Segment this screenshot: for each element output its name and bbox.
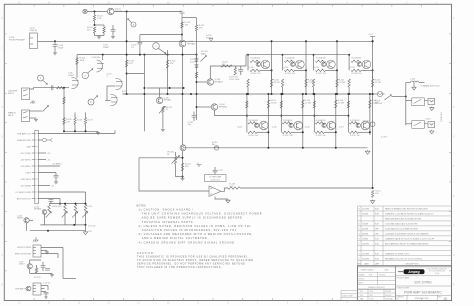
variable-resistor arrow VR-100 xyxy=(172,156,180,164)
wire xyxy=(139,44,141,55)
LED arrow D-112 xyxy=(72,212,78,218)
node reference D xyxy=(88,99,94,105)
svg-text:ST. LOUIS, MISSOURI: ST. LOUIS, MISSOURI xyxy=(429,271,445,273)
node junction xyxy=(280,93,282,95)
chassis ground jack J-102 xyxy=(30,100,35,104)
wire lower base bus xyxy=(245,115,348,117)
svg-text:TOUCHING INTERNAL PARTS.: TOUCHING INTERNAL PARTS. xyxy=(142,221,195,224)
node junction xyxy=(305,69,307,71)
wire base drop Q-156 xyxy=(313,94,315,123)
node junction xyxy=(369,93,371,95)
svg-text:TO K-100: TO K-100 xyxy=(88,225,95,227)
resistor R-129 xyxy=(234,68,236,76)
wire bias servo emitter xyxy=(182,151,184,177)
node junction xyxy=(335,131,337,133)
jack J-106 effects xyxy=(33,245,41,257)
svg-text:J: J xyxy=(1,48,2,50)
wire FX sleeve xyxy=(41,250,47,252)
capacitor C-117 xyxy=(213,170,218,172)
wire xyxy=(260,69,272,71)
company address text xyxy=(427,268,449,275)
resistor R-103 xyxy=(93,27,95,33)
transistor Q-152 xyxy=(327,60,336,69)
wire jack J-103 sleeve xyxy=(30,117,37,119)
wire xyxy=(63,278,76,280)
transistor Q-151 xyxy=(296,60,305,69)
wire output column Q-156 xyxy=(335,94,337,148)
wire DC shutdown xyxy=(38,191,85,193)
wire output column Q-150 xyxy=(271,41,273,94)
pin ANTI DISTORT of J-100 xyxy=(32,198,35,200)
title block annex table xyxy=(341,291,358,301)
svg-text:MPSA06: MPSA06 xyxy=(34,208,41,211)
svg-text:+15: +15 xyxy=(196,163,199,165)
node reference B xyxy=(131,22,136,27)
svg-text:R-152C 100: R-152C 100 xyxy=(316,73,326,75)
node junction xyxy=(246,93,248,95)
node junction xyxy=(280,115,282,117)
resistor R-143 xyxy=(181,163,183,171)
svg-text:PWR AMP IN: PWR AMP IN xyxy=(15,288,26,291)
svg-text:-50V (GRN): -50V (GRN) xyxy=(20,185,31,187)
svg-text:NOTES: NOTES xyxy=(137,205,147,207)
wire base drop Q-150 xyxy=(247,55,249,71)
wire Q-110 collector xyxy=(159,88,161,97)
transistor Q-151D xyxy=(291,62,295,66)
svg-text:4750-190-01F: 4750-190-01F xyxy=(415,298,429,300)
pin LIMIT of J-100 xyxy=(32,172,35,174)
svg-text:R-137 1K: R-137 1K xyxy=(34,277,42,279)
node junction xyxy=(335,147,337,149)
node junction xyxy=(302,93,304,95)
svg-text:Q-107: Q-107 xyxy=(19,262,24,264)
wire xyxy=(54,46,56,51)
wire output column Q-154 xyxy=(267,94,269,148)
node junction xyxy=(196,54,198,56)
svg-text:SERVICE PERSONNEL. DO NOT PE: SERVICE PERSONNEL. DO NOT PERFORM ANY SE… xyxy=(137,262,245,265)
svg-text:REV: REV xyxy=(438,296,441,298)
pin -50V (GRN) of J-100 xyxy=(32,185,35,187)
wire Q-101 collector run xyxy=(114,11,182,13)
wire xyxy=(85,225,87,231)
svg-text:R-136 100K: R-136 100K xyxy=(53,206,63,208)
ground jack J-103 xyxy=(34,118,38,121)
svg-text:ADD DAMPING CIRCUIT TO SPEAKON: ADD DAMPING CIRCUIT TO SPEAKON NETWORK xyxy=(385,242,429,245)
node junction xyxy=(169,87,171,89)
capacitor C-121 xyxy=(41,266,46,268)
node reference E xyxy=(38,75,44,81)
arrow from node A xyxy=(88,69,93,73)
wire output rail xyxy=(372,41,374,188)
svg-text:C-117: C-117 xyxy=(218,170,224,172)
svg-text:Q-154: Q-154 xyxy=(237,127,242,129)
wire vertical rail x126 xyxy=(126,12,128,95)
arrow from node E xyxy=(43,81,47,85)
capacitor C-114 xyxy=(192,116,197,118)
pin GND (BLK) of J-100 xyxy=(32,178,35,180)
transistor Q-152D xyxy=(322,62,326,66)
transistor Q-156 xyxy=(327,121,336,130)
transistor Q-107 xyxy=(27,264,32,269)
resistor R-153D xyxy=(348,79,350,87)
node junction xyxy=(247,54,249,56)
node junction xyxy=(313,115,315,117)
svg-text:1: 1 xyxy=(359,253,360,255)
svg-text:2N3904: 2N3904 xyxy=(17,218,23,220)
svg-text:7: 7 xyxy=(359,214,360,216)
node junction xyxy=(182,54,184,56)
wire xyxy=(55,177,57,181)
wire xyxy=(41,288,45,290)
wire xyxy=(94,33,96,36)
wire base drop Q-152 xyxy=(313,55,315,71)
svg-text:R-109: R-109 xyxy=(88,120,93,122)
relay contact box K-102A xyxy=(412,98,425,106)
node junction xyxy=(182,176,184,178)
node junction xyxy=(271,40,273,42)
svg-text:11/07/95: 11/07/95 xyxy=(362,243,369,245)
svg-text:R-153A 330: R-153A 330 xyxy=(352,57,362,60)
output jack J-105 speakon xyxy=(424,122,434,128)
svg-text:11/25/96: 11/25/96 xyxy=(385,291,391,293)
transistor Q-155D xyxy=(289,123,293,127)
node junction xyxy=(372,40,374,42)
resistor VR-102 xyxy=(162,107,164,113)
wire -50 pin xyxy=(38,185,50,187)
wire rail x182 upper xyxy=(181,18,183,40)
wire bias spreader top xyxy=(147,87,184,89)
node reference C xyxy=(153,43,160,50)
resistor R-150C xyxy=(250,69,260,71)
wire output mid bus HB2 xyxy=(123,93,373,95)
svg-text:A: A xyxy=(84,74,86,77)
wire xyxy=(234,66,236,68)
wire xyxy=(372,70,374,79)
wire vertical x144 xyxy=(143,55,145,132)
node junction xyxy=(182,93,184,95)
wire xyxy=(112,31,114,35)
svg-text:-15V (WHT): -15V (WHT) xyxy=(20,159,31,161)
wire base drop Q-155 xyxy=(280,94,282,123)
wire xyxy=(45,294,47,296)
resistor R-116 xyxy=(166,60,168,68)
wire V2A grid xyxy=(107,85,116,87)
node input xyxy=(54,40,56,42)
ground bias network xyxy=(181,177,185,180)
svg-text:INPUT: INPUT xyxy=(8,93,15,95)
node junction xyxy=(64,203,66,205)
svg-text:1) CAUTION: SHOCK HAZARD !: 1) CAUTION: SHOCK HAZARD ! xyxy=(139,209,194,212)
wire xyxy=(247,87,249,94)
node junction xyxy=(305,93,307,95)
node junction xyxy=(372,187,374,189)
wire main top rail HB6 xyxy=(38,40,373,42)
svg-text:D: D xyxy=(90,101,92,104)
node junction xyxy=(369,131,371,133)
wire xyxy=(336,70,338,79)
node junction xyxy=(143,54,145,56)
company logo Ampeg xyxy=(404,269,425,274)
svg-text:.22 5W: .22 5W xyxy=(305,102,311,104)
svg-text:10/25/94: 10/25/94 xyxy=(385,299,391,301)
ground cathode network xyxy=(96,131,100,134)
wire Q-106 emitter xyxy=(26,223,28,231)
wire grid leak drop xyxy=(63,88,65,132)
svg-text:V-100 WAS 12AX7, ADD K-100 NOT: V-100 WAS 12AX7, ADD K-100 NOTES xyxy=(385,223,418,226)
node junction xyxy=(246,115,248,117)
node junction xyxy=(336,69,338,71)
svg-text:JACK: JACK xyxy=(8,114,14,117)
ground bias divider xyxy=(97,36,101,39)
svg-text:3: 3 xyxy=(359,238,360,240)
svg-text:10/25/94: 10/25/94 xyxy=(379,274,385,276)
svg-text:C-106 220p: C-106 220p xyxy=(91,57,100,59)
node junction xyxy=(348,54,350,56)
wire base drop Q-153 xyxy=(348,55,350,71)
ground jack J-105 xyxy=(430,130,434,134)
wire xyxy=(324,131,336,133)
svg-text:2N5457: 2N5457 xyxy=(19,263,25,265)
fuse F-100 xyxy=(214,146,219,151)
svg-text:R-152A 330: R-152A 330 xyxy=(316,57,326,60)
capacitor C-119 xyxy=(54,175,59,177)
svg-text:SVT-3 PRO: SVT-3 PRO xyxy=(414,281,432,285)
svg-text:J: J xyxy=(453,48,454,50)
svg-text:RELEASED SVT-3 W 3 OF 157 (TO: RELEASED SVT-3 W 3 OF 157 (TO W PRO) xyxy=(385,257,422,260)
wire pre amp out xyxy=(38,133,115,135)
wire xyxy=(208,190,210,192)
svg-text:P100-2: P100-2 xyxy=(426,118,431,120)
wire +50 pin xyxy=(38,165,60,167)
svg-text:470pF: 470pF xyxy=(58,47,65,49)
node junction xyxy=(336,93,338,95)
wire xyxy=(282,87,284,94)
resistor R-157A base xyxy=(349,122,358,124)
svg-text:Q-155: Q-155 xyxy=(272,127,277,129)
pin PRE AMP OUT of J-100 xyxy=(32,133,35,135)
wire xyxy=(413,82,415,86)
chassis ground symbol FX xyxy=(33,237,39,242)
svg-text:CHASSIS GND: CHASSIS GND xyxy=(17,139,31,142)
resistor R-102 xyxy=(93,15,95,21)
svg-text:R-146 WAS 20K, R-143 WAS 470 O: R-146 WAS 20K, R-143 WAS 470 OHM xyxy=(385,228,418,231)
wire xyxy=(348,87,350,94)
svg-text:2 OF 2: 2 OF 2 xyxy=(381,137,388,139)
resistor R-155B emitter xyxy=(302,100,304,108)
svg-text:12AX7: 12AX7 xyxy=(68,74,75,77)
wire xyxy=(74,125,76,132)
svg-text:0: 0 xyxy=(359,258,360,260)
wire servo input run xyxy=(139,158,208,191)
resistor R-137 xyxy=(35,268,37,273)
resistor R-156B emitter xyxy=(335,100,337,108)
resistor VR-100 xyxy=(174,156,176,164)
wire xyxy=(64,212,66,225)
node junction xyxy=(139,54,141,56)
transistor Q-153D xyxy=(357,62,361,66)
svg-text:DATE: DATE xyxy=(364,262,370,265)
svg-text:4: 4 xyxy=(359,234,360,236)
power flag +85V xyxy=(179,13,184,18)
wire +15 pin xyxy=(38,152,46,154)
resistor R-146 xyxy=(228,187,240,189)
wire Q-104 base xyxy=(197,106,212,108)
svg-text:SPEAKONS: SPEAKONS xyxy=(440,111,443,122)
svg-text:2: 2 xyxy=(359,243,360,245)
node junction xyxy=(313,93,315,95)
svg-text:C-123 10u: C-123 10u xyxy=(43,283,50,285)
wire xyxy=(406,123,412,125)
diode D-102 on rail xyxy=(209,38,213,41)
svg-text:R-156A 330: R-156A 330 xyxy=(316,119,326,122)
node junction xyxy=(167,93,169,95)
svg-text:4.7K: 4.7K xyxy=(129,63,134,65)
wire jack J-102 tip xyxy=(30,88,38,89)
wire xyxy=(94,12,96,16)
wire limit pin xyxy=(38,172,56,174)
svg-text:FROM PRE AMP: FROM PRE AMP xyxy=(9,38,25,41)
resistor R-157B emitter xyxy=(369,100,371,108)
resistor R-132 indicator xyxy=(74,205,77,213)
svg-text:R-154C 100: R-154C 100 xyxy=(248,135,258,137)
LED arrow D-113 xyxy=(82,212,88,218)
wire V2B grid xyxy=(105,99,111,101)
wire xyxy=(419,81,425,83)
transistor Q-103 VAS xyxy=(207,79,213,85)
node junction xyxy=(75,203,77,205)
capacitor C-101 xyxy=(111,30,116,32)
wire xyxy=(59,199,61,204)
wire Q-104 emitter xyxy=(214,110,216,115)
node junction xyxy=(267,147,269,149)
svg-text:.22 5W: .22 5W xyxy=(374,82,380,84)
resistor R-155A base xyxy=(282,122,291,124)
LED arrow D-110 xyxy=(46,212,52,218)
wire xyxy=(85,212,87,225)
resistor R-150D xyxy=(247,79,249,87)
ground C-119 xyxy=(54,181,58,184)
node rail R-120 xyxy=(181,34,183,36)
resistor R-108 xyxy=(74,118,76,125)
svg-text:.22 5W: .22 5W xyxy=(339,82,345,84)
wire xyxy=(196,31,198,41)
svg-text:5/22/96: 5/22/96 xyxy=(362,229,368,231)
relay contact arrow K-101 xyxy=(385,95,392,100)
node junction xyxy=(372,93,374,95)
resistor R-156A base xyxy=(315,122,324,124)
node junction xyxy=(196,106,198,108)
resistor R-157D xyxy=(347,101,349,108)
resistor R-105 xyxy=(63,97,65,104)
diode D-103 xyxy=(195,59,199,62)
svg-text:THIS SCHEMATIC IS PROVIDED FOR: THIS SCHEMATIC IS PROVIDED FOR USE BY QU… xyxy=(137,255,249,258)
node junction xyxy=(313,93,315,95)
svg-text:.22 5W: .22 5W xyxy=(270,102,276,104)
node junction xyxy=(336,40,338,42)
wire xyxy=(95,24,105,26)
svg-text:2) UNLESS NOTED, RESISTOR VALU: 2) UNLESS NOTED, RESISTOR VALUES IN OHMS… xyxy=(139,225,252,228)
resistor R-152D xyxy=(312,79,314,87)
node junction xyxy=(271,69,273,71)
wire xyxy=(305,70,307,79)
transistor Q-110 bias spreader xyxy=(156,97,162,103)
wire xyxy=(240,66,242,70)
arrow to node B xyxy=(128,19,132,23)
tube V-1B triode xyxy=(97,60,103,72)
wire xyxy=(42,267,44,271)
wire upper drive link xyxy=(210,65,246,67)
ground FX buffer xyxy=(50,273,54,276)
node junction xyxy=(126,54,128,56)
svg-text:4W 25W: 4W 25W xyxy=(375,103,383,105)
svg-text:R-108: R-108 xyxy=(77,120,82,122)
svg-text:CHANGED C-130 VALUE, MOVED R-1: CHANGED C-130 VALUE, MOVED R-160 AND CB-… xyxy=(385,213,434,216)
svg-text:G: G xyxy=(1,137,3,139)
wire xyxy=(313,87,315,94)
svg-text:+50 (RED): +50 (RED) xyxy=(52,164,62,166)
svg-text:6: 6 xyxy=(359,224,360,226)
resistor R-104 xyxy=(76,58,78,65)
svg-text:+15V (ORN): +15V (ORN) xyxy=(20,153,31,155)
wire upper base bus xyxy=(246,54,349,56)
transistor Q-106 xyxy=(24,218,29,223)
switch arrow J-103 xyxy=(43,106,49,112)
ground bias spreader xyxy=(161,128,165,131)
wire base drop Q-154 xyxy=(246,94,248,123)
capacitor C-112 xyxy=(238,70,243,72)
wire lower drive link xyxy=(215,115,246,117)
wire P-101 output xyxy=(38,40,56,42)
resistor R-107 xyxy=(63,118,65,125)
node junction xyxy=(182,157,184,159)
node junction xyxy=(335,93,337,95)
tube V-2B triode xyxy=(111,94,118,105)
svg-text:09/14/95: 09/14/95 xyxy=(385,295,391,297)
resistor R-152A base xyxy=(316,60,326,62)
node junction xyxy=(271,93,273,95)
node junction xyxy=(305,40,307,42)
node junction xyxy=(347,93,349,95)
transistor Q-157 xyxy=(361,121,370,130)
wire upper bus drop xyxy=(245,55,247,66)
wire to V1A grid xyxy=(64,87,69,89)
svg-text:EFFECTS RETURN: EFFECTS RETURN xyxy=(15,254,32,256)
node junction xyxy=(94,11,96,13)
node junction xyxy=(102,54,104,56)
power flag +15V xyxy=(197,165,202,167)
wire xyxy=(246,123,248,133)
wire J-107 sleeve xyxy=(41,291,46,293)
svg-text:OUT: OUT xyxy=(369,34,374,36)
wire base drop Q-151 xyxy=(282,55,284,71)
node junction xyxy=(63,130,65,132)
diode D-104 xyxy=(195,65,199,68)
transistor Q-153 xyxy=(362,60,371,69)
transistor Q-156D xyxy=(322,123,326,127)
wire indicator mid run xyxy=(40,224,85,226)
wire feedback line HB4 xyxy=(240,187,373,189)
svg-text:Ampeg: Ampeg xyxy=(407,270,420,274)
wire xyxy=(361,69,373,71)
ground J-107 xyxy=(44,296,47,299)
svg-text:R-153C 100: R-153C 100 xyxy=(352,73,362,75)
svg-text:L-100: L-100 xyxy=(410,79,416,81)
svg-text:.22 5W: .22 5W xyxy=(308,82,314,84)
tube V-2A triode xyxy=(116,78,123,89)
svg-text:15: 15 xyxy=(443,297,447,301)
wire xyxy=(47,286,49,291)
node junction xyxy=(183,87,185,89)
